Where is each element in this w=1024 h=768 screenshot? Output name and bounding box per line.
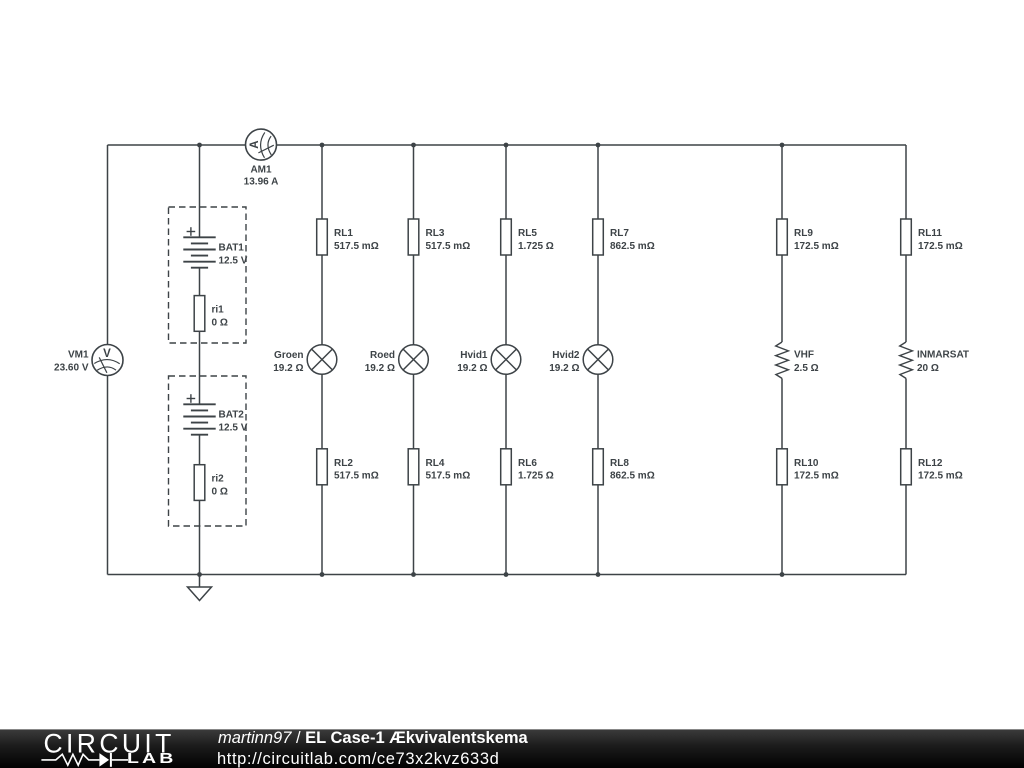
resistor RL5 <box>501 219 512 255</box>
wire BAT2 to ri2 <box>199 435 201 465</box>
svg-text:862.5 mΩ: 862.5 mΩ <box>610 471 655 482</box>
svg-text:172.5 mΩ: 172.5 mΩ <box>794 471 839 482</box>
wire RL5 to Hvid1 <box>505 255 507 345</box>
svg-text:RL9: RL9 <box>794 228 813 239</box>
svg-text:Roed: Roed <box>370 350 395 361</box>
footer title text <box>218 729 528 748</box>
svg-text:AM1: AM1 <box>250 165 272 176</box>
wire RL8 to bottom rail <box>597 485 599 575</box>
svg-text:19.2 Ω: 19.2 Ω <box>365 363 395 374</box>
wire BAT1 to ri1 <box>199 268 201 296</box>
resistor RL7 <box>593 219 604 255</box>
wire column2 top (rail to RL3) <box>413 145 415 219</box>
resistor RL9 <box>777 219 788 255</box>
svg-text:517.5 mΩ: 517.5 mΩ <box>334 241 379 252</box>
ammeter AM1 <box>246 129 277 160</box>
resistor ri2 <box>194 465 205 501</box>
svg-text:19.2 Ω: 19.2 Ω <box>457 363 487 374</box>
wire column1 top (rail to RL1) <box>321 145 323 219</box>
lamp Hvid1 <box>491 345 521 375</box>
resistor RL8 <box>593 449 604 485</box>
wire column6 right edge top (rail corner to RL11) <box>905 145 907 219</box>
resistor RL11 <box>901 219 912 255</box>
svg-text:VM1: VM1 <box>68 350 89 361</box>
svg-text:RL7: RL7 <box>610 228 629 239</box>
svg-text:2.5 Ω: 2.5 Ω <box>794 363 819 374</box>
wire VHF to RL10 <box>781 378 783 448</box>
svg-text:1.725 Ω: 1.725 Ω <box>518 241 554 252</box>
svg-text:ri2: ri2 <box>212 474 225 485</box>
junction node bottom rail column3 <box>504 572 509 577</box>
lamp Groen <box>307 345 337 375</box>
svg-text:RL11: RL11 <box>918 228 942 239</box>
svg-text:0 Ω: 0 Ω <box>212 317 228 328</box>
svg-text:Hvid2: Hvid2 <box>552 350 580 361</box>
svg-text:RL1: RL1 <box>334 228 353 239</box>
wire RL4 to bottom rail <box>413 485 415 575</box>
svg-text:A: A <box>249 140 261 148</box>
wire RL2 to bottom rail <box>321 485 323 575</box>
BAT2 plus polarity mark <box>187 394 196 403</box>
wire Hvid1 to RL6 <box>505 374 507 449</box>
wire top horizontal (AM1 right terminal to top-right corner) <box>277 144 907 146</box>
svg-text:RL4: RL4 <box>426 458 445 469</box>
resistor RL1 <box>317 219 328 255</box>
svg-text:1.725 Ω: 1.725 Ω <box>518 471 554 482</box>
resistor RL4 <box>408 449 419 485</box>
svg-text:517.5 mΩ: 517.5 mΩ <box>426 471 471 482</box>
wire left vertical (top-left corner down to VM1) <box>107 145 109 345</box>
resistor ri1 <box>194 296 205 332</box>
svg-text:VHF: VHF <box>794 350 814 361</box>
wire Roed to RL4 <box>413 374 415 449</box>
svg-text:INMARSAT: INMARSAT <box>917 350 969 361</box>
svg-text:RL8: RL8 <box>610 458 629 469</box>
wire INMARSAT to RL12 <box>905 378 907 448</box>
resistor INMARSAT (zigzag) <box>900 342 913 378</box>
junction node top rail column2 <box>411 143 416 148</box>
wire column3 top (rail to RL5) <box>505 145 507 219</box>
svg-text:BAT2: BAT2 <box>219 410 245 421</box>
svg-text:20 Ω: 20 Ω <box>917 363 939 374</box>
svg-text:19.2 Ω: 19.2 Ω <box>549 363 579 374</box>
svg-text:12.5 V: 12.5 V <box>219 255 248 266</box>
wire RL1 to Groen <box>321 255 323 345</box>
svg-text:BAT1: BAT1 <box>219 243 245 254</box>
wire Groen to RL2 <box>321 374 323 449</box>
svg-text:RL6: RL6 <box>518 458 537 469</box>
svg-text:12.5 V: 12.5 V <box>219 422 248 433</box>
wire bottom horizontal (ground rail) <box>108 574 907 576</box>
junction node bottom rail column4 <box>596 572 601 577</box>
battery BAT2 <box>183 404 215 434</box>
wire RL7 to Hvid2 <box>597 255 599 345</box>
wire Hvid2 to RL8 <box>597 374 599 449</box>
svg-text:RL2: RL2 <box>334 458 353 469</box>
junction node bottom rail column1 <box>320 572 325 577</box>
resistor RL3 <box>408 219 419 255</box>
junction node bottom rail column2 <box>411 572 416 577</box>
voltmeter VM1 <box>92 345 123 376</box>
footer url text <box>217 750 499 768</box>
svg-text:RL12: RL12 <box>918 458 943 469</box>
junction node bottom rail at battery/ground <box>197 572 202 577</box>
wire column4 top (rail to RL7) <box>597 145 599 219</box>
junction node top rail column3 <box>504 143 509 148</box>
svg-text:862.5 mΩ: 862.5 mΩ <box>610 241 655 252</box>
wire top-left horizontal (node V+ to AM1 left terminal) <box>108 144 246 146</box>
svg-text:517.5 mΩ: 517.5 mΩ <box>334 471 379 482</box>
wire ri1 to BAT2 <box>199 331 201 404</box>
ground symbol <box>188 575 212 601</box>
svg-text:ri1: ri1 <box>212 305 225 316</box>
svg-text:0 Ω: 0 Ω <box>212 487 228 498</box>
wire ri2 to bottom rail <box>199 500 201 574</box>
svg-text:13.96 A: 13.96 A <box>244 177 279 188</box>
svg-text:23.60 V: 23.60 V <box>54 362 89 373</box>
wire RL9 to VHF <box>781 255 783 342</box>
wire RL11 to INMARSAT <box>905 255 907 342</box>
svg-text:Groen: Groen <box>274 350 303 361</box>
wire column5 top (rail to RL9) <box>781 145 783 219</box>
svg-text:RL3: RL3 <box>426 228 445 239</box>
BAT1 plus polarity mark <box>187 227 196 236</box>
CircuitLab logo wordmark and resistor-diode mark <box>0 730 200 768</box>
resistor RL10 <box>777 449 788 485</box>
footer bar <box>0 729 1024 768</box>
junction node on top rail at battery branch <box>197 143 202 148</box>
wire RL12 to bottom-right corner <box>905 485 907 575</box>
dashed enclosure box around BAT2 and ri2 <box>169 376 247 526</box>
junction node top rail column1 <box>320 143 325 148</box>
svg-text:19.2 Ω: 19.2 Ω <box>273 363 303 374</box>
svg-text:172.5 mΩ: 172.5 mΩ <box>794 241 839 252</box>
resistor RL2 <box>317 449 328 485</box>
junction node top rail column5 <box>780 143 785 148</box>
wire left vertical (VM1 down to bottom-left corner) <box>107 376 109 575</box>
junction node bottom rail column5 <box>780 572 785 577</box>
resistor RL6 <box>501 449 512 485</box>
wire RL10 to bottom rail <box>781 485 783 575</box>
lamp Hvid2 <box>583 345 613 375</box>
dashed enclosure box around BAT1 and ri1 <box>169 207 247 343</box>
lamp Roed <box>399 345 429 375</box>
wire battery branch top (top rail to BAT1) <box>199 145 201 237</box>
svg-text:517.5 mΩ: 517.5 mΩ <box>426 241 471 252</box>
wire RL6 to bottom rail <box>505 485 507 575</box>
resistor VHF (zigzag) <box>776 342 789 378</box>
battery BAT1 <box>183 237 215 267</box>
resistor RL12 <box>901 449 912 485</box>
wire RL3 to Roed <box>413 255 415 345</box>
junction node top rail column4 <box>596 143 601 148</box>
svg-text:RL10: RL10 <box>794 458 819 469</box>
svg-text:V: V <box>103 348 111 360</box>
svg-text:172.5 mΩ: 172.5 mΩ <box>918 241 963 252</box>
svg-text:RL5: RL5 <box>518 228 537 239</box>
svg-text:172.5 mΩ: 172.5 mΩ <box>918 471 963 482</box>
svg-text:Hvid1: Hvid1 <box>460 350 488 361</box>
